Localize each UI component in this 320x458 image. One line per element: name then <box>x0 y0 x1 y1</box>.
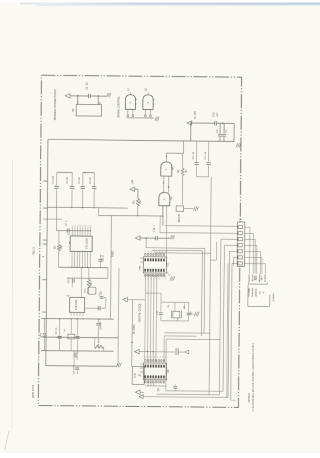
wire <box>97 208 99 216</box>
wire P1-5 <box>229 250 237 252</box>
transistor Q5 <box>176 206 184 212</box>
svg-text:9: 9 <box>146 357 147 359</box>
capacitor C11 <box>219 123 221 133</box>
svg-text:2: 2 <box>165 251 166 253</box>
capacitor C18 <box>77 319 79 336</box>
svg-text:7: 7 <box>162 278 163 280</box>
svg-text:+5V: +5V <box>131 179 134 184</box>
svg-text:CHASSIS: CHASSIS <box>251 287 254 297</box>
wire <box>140 237 156 239</box>
crystal Y2 <box>68 334 75 339</box>
ground <box>116 363 121 367</box>
wire P1 pin 2 lead <box>245 232 254 234</box>
trimmer RT1 <box>88 287 96 294</box>
svg-text:WIRING: WIRING <box>256 288 258 296</box>
capacitor C17 <box>59 319 61 336</box>
wire <box>90 95 106 97</box>
svg-text:BLACK: BLACK <box>248 274 251 282</box>
svg-text:1. RESISTANCE VALUES IN OHMS,: 1. RESISTANCE VALUES IN OHMS, CAPACITANC… <box>252 342 255 411</box>
op-amp U1 <box>70 236 92 252</box>
amplifier U2 <box>70 297 85 312</box>
wire P1-4 <box>224 244 237 246</box>
svg-text:(CONN): (CONN) <box>273 293 275 301</box>
svg-text:C21 470: C21 470 <box>73 365 75 374</box>
relay K2 <box>143 95 153 110</box>
wire <box>157 237 169 239</box>
U4 side stubs <box>140 363 143 365</box>
IC U1 pins top <box>71 227 73 236</box>
wire bus A <box>146 247 205 250</box>
wire <box>107 268 109 279</box>
svg-text:1: 1 <box>72 225 73 227</box>
capacitor C6 <box>93 173 95 186</box>
svg-text:6: 6 <box>85 225 86 227</box>
transistor Q2 <box>159 192 170 205</box>
capacitor C20 <box>73 351 75 353</box>
svg-text:2: 2 <box>74 225 75 227</box>
capacitor C5 <box>82 173 84 186</box>
svg-text:C9 1: C9 1 <box>68 278 70 284</box>
wire P1-6 <box>234 256 237 258</box>
wire P1 pin 4 lead <box>245 244 257 246</box>
wire <box>197 176 209 178</box>
arrow <box>185 350 189 354</box>
P1 pin 6 <box>238 256 242 259</box>
resistor R2 <box>136 199 139 206</box>
wire P1-2 <box>160 232 237 235</box>
svg-text:C1 .01: C1 .01 <box>86 82 89 90</box>
module boundary frame (dash-dot) <box>38 75 241 407</box>
battery module B1 <box>76 104 102 116</box>
svg-text:5: 5 <box>82 225 83 227</box>
wire <box>67 277 108 279</box>
wire cap bank top pair2 <box>83 172 94 174</box>
P1 pin 3 <box>238 238 242 241</box>
P1 pin 4 <box>238 244 242 247</box>
long wire 8VDC <box>109 216 112 320</box>
wire bus under U1 <box>59 266 108 268</box>
svg-text:MODULE CONNECTIONS: MODULE CONNECTIONS <box>53 89 57 120</box>
IC U1 pins bottom <box>71 251 73 267</box>
svg-text:8: 8 <box>165 278 166 280</box>
wire P1 pin 1 lead <box>245 226 250 228</box>
arrow P2 feed <box>139 395 143 399</box>
svg-text:VR1: VR1 <box>91 281 93 286</box>
node junction <box>90 230 91 231</box>
volume pot VR1 <box>87 280 90 287</box>
diode CR1 <box>44 318 46 332</box>
crystal Y1 <box>173 311 180 318</box>
svg-text:C5 100: C5 100 <box>79 176 81 184</box>
ground <box>193 207 198 211</box>
capacitor C25 <box>174 384 176 385</box>
chassis connection <box>106 93 110 97</box>
node junction <box>146 237 147 238</box>
svg-text:C14 .1: C14 .1 <box>154 225 156 233</box>
svg-text:P/O: P/O <box>135 373 137 377</box>
svg-text:C8 10: C8 10 <box>103 254 105 261</box>
connector arrow J1-1 <box>65 94 70 98</box>
capacitor C15 <box>98 293 100 296</box>
wire bus <box>98 214 163 217</box>
svg-text:8: 8 <box>148 357 149 359</box>
wire P1-1 to Q2 <box>165 225 238 228</box>
svg-text:7: 7 <box>151 357 152 359</box>
U2 pins <box>70 312 72 315</box>
wire <box>161 320 189 322</box>
wire <box>192 122 215 124</box>
svg-text:REG 5V: REG 5V <box>179 213 181 222</box>
svg-text:C17 10: C17 10 <box>56 327 58 335</box>
resistor R6 <box>95 345 104 348</box>
svg-text:SIGNAL CONTROL: SIGNAL CONTROL <box>117 95 120 118</box>
chassis connection <box>155 117 159 121</box>
svg-text:C19 4.7: C19 4.7 <box>100 321 102 330</box>
svg-text:5: 5 <box>157 357 158 359</box>
capacitor C13 <box>208 141 210 161</box>
wire <box>190 123 192 141</box>
svg-text:9: 9 <box>145 251 146 253</box>
wire rail <box>41 317 113 320</box>
wire <box>57 230 91 232</box>
svg-text:3: 3 <box>162 357 163 359</box>
wire <box>85 307 100 309</box>
wire <box>227 263 228 397</box>
wire stub J1 <box>43 218 63 220</box>
wire stub B1 pin14 <box>97 96 99 104</box>
arrow sense <box>135 349 140 353</box>
svg-text:B+ 14V: B+ 14V <box>194 111 197 119</box>
svg-text:8VDC: 8VDC <box>112 250 114 256</box>
svg-text:4: 4 <box>160 357 161 359</box>
capacitor C21 <box>76 365 78 368</box>
U3 side stubs <box>140 257 143 259</box>
wire P1 pin 3 lead <box>245 238 256 240</box>
harness bracket <box>248 283 267 285</box>
wire bus C <box>154 252 210 255</box>
long wire <box>117 268 120 366</box>
svg-text:7: 7 <box>87 225 88 227</box>
capacitor C2 <box>223 123 225 133</box>
svg-text:1uF: 1uF <box>216 112 219 117</box>
B+ input arrow <box>187 121 192 125</box>
svg-text:8: 8 <box>90 225 91 227</box>
wire <box>166 152 183 154</box>
decoder U4 <box>143 363 166 380</box>
wire <box>70 95 88 97</box>
wire rail <box>41 350 113 353</box>
wire P1 pin 5 lead <box>245 250 261 252</box>
svg-text:R6 1000: R6 1000 <box>98 338 100 347</box>
wire under U3 <box>145 275 166 277</box>
svg-text:STK 0059: STK 0059 <box>86 238 89 250</box>
Q1 legs <box>163 176 165 192</box>
wire <box>233 123 235 141</box>
svg-text:4: 4 <box>159 251 160 253</box>
microcomputer U3 <box>143 257 166 273</box>
node junction <box>222 123 223 124</box>
resistor R5 <box>182 153 184 168</box>
wire bus D <box>166 338 220 341</box>
capacitor C23 <box>188 302 190 312</box>
wire stub P/O J1 <box>43 180 47 182</box>
U4 bottom pins <box>147 381 149 385</box>
arrow bottom <box>136 390 141 394</box>
module label box <box>132 366 144 384</box>
wire left edge <box>46 139 48 365</box>
svg-text:6: 6 <box>154 357 155 359</box>
transistor Q1 <box>161 162 172 176</box>
wire common <box>127 117 154 119</box>
node junction <box>190 122 191 123</box>
svg-text:TO MAIN: TO MAIN <box>248 288 251 298</box>
svg-text:C7 .1: C7 .1 <box>66 220 68 226</box>
capacitor C3 <box>56 172 58 185</box>
svg-text:8: 8 <box>148 251 149 253</box>
svg-text:BLU: BLU <box>261 275 263 280</box>
sense arrow <box>135 236 140 240</box>
node junction <box>77 95 78 96</box>
svg-text:C3 1000: C3 1000 <box>53 175 55 184</box>
capacitor C22 <box>160 302 162 312</box>
capacitor C12 <box>196 141 198 161</box>
wire B+ vertical <box>131 300 134 367</box>
wire stub <box>42 279 46 281</box>
+5V output arrow <box>130 187 135 191</box>
resistor R1 <box>58 231 60 245</box>
wire ground rail bottom <box>46 365 116 368</box>
capacitor C14 <box>155 236 157 240</box>
P1 pin 2 <box>238 232 242 235</box>
chassis connection <box>170 235 174 239</box>
svg-text:C20 100: C20 100 <box>77 350 79 359</box>
wire <box>137 206 139 216</box>
capacitor C19 <box>97 319 99 322</box>
wire P1 pin 7 lead <box>244 262 265 264</box>
relay K1 <box>125 95 135 110</box>
capacitor C10 <box>214 121 216 125</box>
ground <box>236 143 241 147</box>
wire <box>135 188 138 190</box>
svg-text:3: 3 <box>162 251 163 253</box>
harness box <box>247 285 249 307</box>
wire <box>217 122 235 124</box>
svg-text:XTAL: XTAL <box>139 265 142 271</box>
svg-text:C4 100: C4 100 <box>67 176 69 184</box>
svg-text:C6 220: C6 220 <box>90 176 92 184</box>
svg-text:B+ 8VDC: B+ 8VDC <box>134 324 136 334</box>
capacitor C9 <box>71 277 73 280</box>
P1 pin 7 <box>238 262 242 265</box>
wire B+ rail <box>48 139 234 141</box>
svg-text:DPB-1672: DPB-1672 <box>31 384 35 398</box>
Q2 legs <box>162 206 164 216</box>
svg-text:C13 .01: C13 .01 <box>205 151 207 159</box>
wire +5V bus <box>47 206 127 209</box>
capacitor C7 <box>66 229 68 233</box>
svg-text:6: 6 <box>159 278 160 280</box>
svg-text:SHIELD: SHIELD <box>265 274 267 282</box>
capacitor C1 <box>87 94 89 98</box>
wire <box>145 238 147 248</box>
U3 ground <box>166 271 170 276</box>
svg-text:4: 4 <box>80 225 81 227</box>
edge connector P1 <box>237 222 245 267</box>
wire <box>80 267 82 297</box>
svg-text:P/O J1: P/O J1 <box>32 247 35 255</box>
svg-text:7: 7 <box>151 251 152 253</box>
ground <box>189 313 195 315</box>
capacitor C8 <box>100 255 102 259</box>
capacitor C4 <box>71 173 73 186</box>
svg-text:5: 5 <box>156 251 157 253</box>
wire P1-7 <box>232 262 237 264</box>
node junction <box>98 95 99 96</box>
svg-text:CRYSTAL CLOCK: CRYSTAL CLOCK <box>139 303 142 322</box>
wire P1 pin 6 lead <box>244 256 262 258</box>
capacitor C24 <box>175 348 177 355</box>
wire stub B1 pin1 <box>77 96 79 104</box>
P1 pin 1 <box>238 226 242 229</box>
wire bus B <box>152 249 202 251</box>
K1 pins <box>127 109 129 114</box>
wire to crystal <box>145 292 161 294</box>
svg-text:NOTES:: NOTES: <box>247 392 251 402</box>
svg-text:4MHz: 4MHz <box>184 304 186 310</box>
wire P1-3 <box>221 238 237 240</box>
svg-text:RED: RED <box>256 275 258 280</box>
wire <box>161 301 189 303</box>
P1 pin 5 <box>238 250 242 253</box>
svg-text:STK 0080: STK 0080 <box>76 299 78 310</box>
arrow output <box>123 297 128 301</box>
wire cap bank top pair1 <box>57 171 72 173</box>
wire stub <box>43 239 47 241</box>
svg-text:C12 .01: C12 .01 <box>193 151 195 159</box>
capacitor C16 <box>97 306 99 310</box>
svg-text:1K: 1K <box>186 170 188 173</box>
svg-text:6: 6 <box>154 251 155 253</box>
svg-text:10K: 10K <box>61 245 63 250</box>
K2 pins <box>144 109 146 114</box>
wire rail <box>41 336 118 339</box>
svg-text:3: 3 <box>77 225 78 227</box>
U3-U4 bus wires <box>144 276 147 361</box>
